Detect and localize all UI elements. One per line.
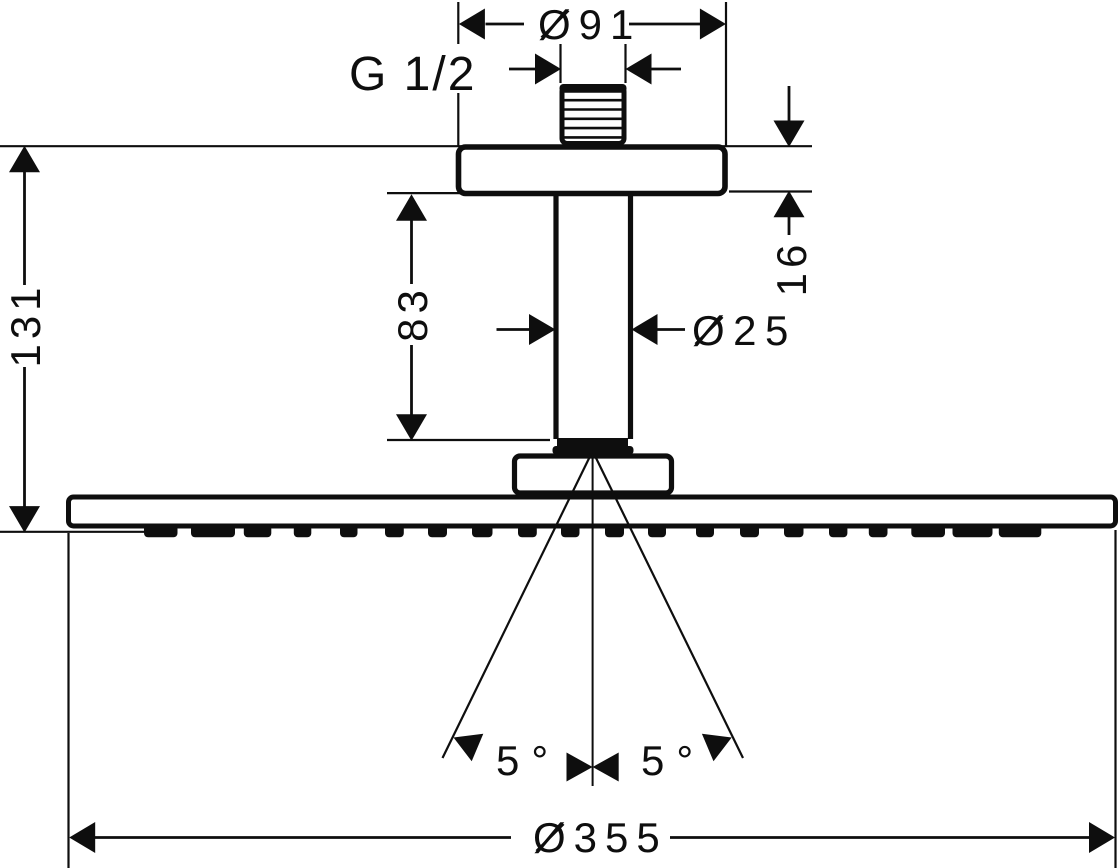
5deg bowtie arrow right bbox=[593, 753, 619, 782]
dim G12 right arrowhead bbox=[626, 54, 652, 85]
spray center line bbox=[592, 451, 594, 786]
dim O25 right line bbox=[655, 328, 685, 331]
lower escutcheon flange bbox=[515, 456, 672, 493]
dim 16 upper line bbox=[788, 86, 791, 124]
threaded stud top cap bbox=[560, 84, 627, 93]
ball joint upper band bbox=[557, 438, 628, 447]
flange bottom extension line left (83 dim top reference) bbox=[387, 192, 556, 194]
svg-text:131: 131 bbox=[2, 282, 49, 367]
dim O355 left arrowhead bbox=[69, 822, 95, 853]
pipe right wall bbox=[628, 194, 633, 439]
spray right line bbox=[593, 451, 743, 758]
dim O91 left extension line lower bbox=[457, 93, 459, 146]
dim O25 left line bbox=[497, 328, 533, 331]
dim 131 lower line bbox=[23, 367, 26, 528]
dim 16 top arrowhead (pointing down) bbox=[774, 121, 805, 148]
dim 83 bottom arrowhead bbox=[396, 414, 427, 441]
ceiling reference extension line (top of flange, shared by 131 and 16 dims) bbox=[0, 145, 812, 147]
thread line 3 bbox=[563, 118, 624, 121]
5deg bowtie arrow left bbox=[567, 753, 593, 782]
thread line 5 bbox=[563, 136, 624, 139]
dim O91 right arrowhead bbox=[700, 9, 726, 40]
svg-text:5°: 5° bbox=[641, 737, 705, 784]
dim 83 lower line bbox=[410, 345, 413, 437]
dim O25 left arrowhead bbox=[529, 314, 556, 345]
dim O355 right extension line bbox=[1114, 530, 1116, 868]
dim O91 right extension line bbox=[725, 2, 727, 146]
spray left arrowhead bbox=[454, 734, 484, 762]
svg-text:G 1/2: G 1/2 bbox=[349, 48, 476, 101]
plate bottom extension line (131 dim bottom reference) bbox=[0, 531, 148, 533]
dim G12 left line bbox=[509, 68, 538, 71]
pipe bottom extension line (83 dim bottom reference) bbox=[387, 439, 550, 441]
dim 131 top arrowhead bbox=[9, 146, 40, 173]
ball joint lower band bbox=[553, 446, 634, 455]
dim 131 upper line bbox=[23, 150, 26, 285]
dim O91 right line bbox=[629, 23, 700, 26]
dim 16 bottom arrowhead (pointing up) bbox=[774, 191, 805, 218]
dim O91 left line bbox=[486, 23, 525, 26]
O25 diameter slash overhang bbox=[696, 317, 723, 344]
flange bottom extension line right (16 dim bottom reference) bbox=[729, 190, 812, 192]
svg-text:Ø355: Ø355 bbox=[533, 814, 668, 861]
thread line 2 bbox=[563, 108, 624, 111]
dim G12 right line bbox=[650, 68, 681, 71]
threaded stud body bbox=[562, 87, 624, 144]
O91 diameter slash overhang bbox=[542, 11, 569, 38]
spray right arrowhead bbox=[702, 734, 732, 762]
dim G12 right extension tick bbox=[624, 44, 626, 83]
shower plate bbox=[69, 497, 1116, 526]
spray left line bbox=[443, 451, 593, 758]
ceiling flange bbox=[459, 147, 726, 194]
svg-text:83: 83 bbox=[389, 285, 436, 342]
nozzle row bbox=[144, 525, 1041, 537]
dim O355 right line bbox=[670, 836, 1090, 839]
dim 131 bottom arrowhead bbox=[9, 506, 40, 532]
dim O355 left extension line bbox=[67, 533, 69, 868]
dim 83 upper line bbox=[410, 198, 413, 284]
thread line 4 bbox=[563, 127, 624, 130]
pipe left wall bbox=[553, 194, 558, 439]
dim O25 right arrowhead bbox=[632, 314, 658, 345]
dim O91 left extension line upper bbox=[457, 2, 459, 44]
svg-text:5°: 5° bbox=[496, 737, 560, 784]
dim 83 top arrowhead bbox=[396, 194, 427, 221]
dim G12 left extension tick bbox=[559, 44, 561, 83]
svg-text:Ø25: Ø25 bbox=[692, 307, 797, 354]
dim 16 lower line bbox=[788, 215, 791, 235]
dim G12 left arrowhead bbox=[535, 54, 561, 85]
thread line 1 bbox=[563, 99, 624, 102]
dim O355 left line bbox=[95, 836, 511, 839]
svg-text:16: 16 bbox=[768, 240, 815, 297]
dim O355 right arrowhead bbox=[1089, 822, 1115, 853]
dim O91 left arrowhead bbox=[459, 9, 485, 40]
O355 diameter slash overhang bbox=[537, 824, 564, 851]
